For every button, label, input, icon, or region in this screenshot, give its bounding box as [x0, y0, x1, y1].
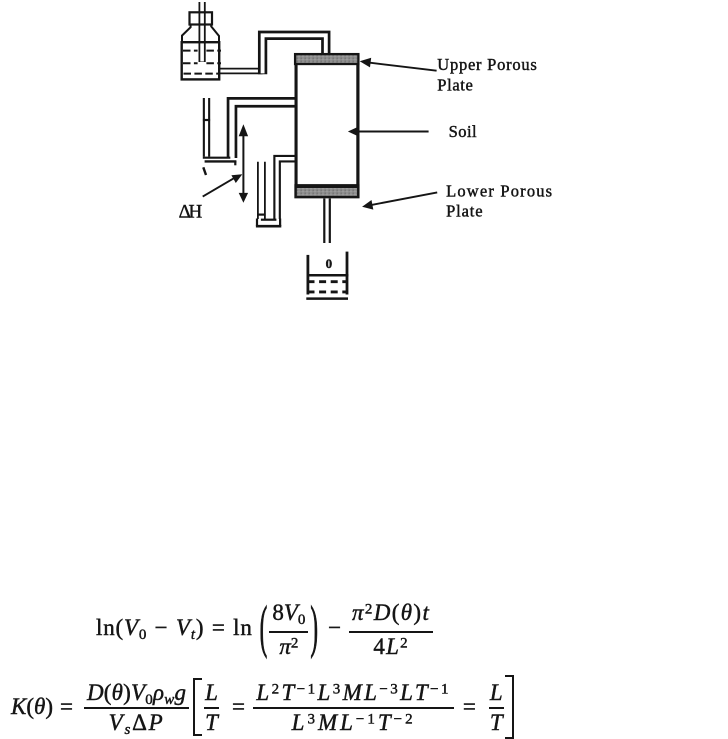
arrow line to lower plate label — [372, 192, 438, 205]
mark tick below upper manometer — [203, 167, 206, 175]
lower manometer water level — [257, 214, 265, 216]
upper manometer water level — [203, 119, 210, 121]
bottle body — [182, 42, 220, 79]
svg-text:Plate: Plate — [446, 202, 483, 221]
beaker dashed row 2 — [308, 290, 349, 293]
svg-text:Upper Porous: Upper Porous — [437, 55, 537, 74]
lower porous plate — [296, 185, 359, 197]
upper manometer bottom joins — [203, 157, 231, 159]
column right wall — [356, 54, 359, 198]
arrow line from delta-H label — [203, 178, 235, 197]
svg-text:Soil: Soil — [449, 122, 477, 141]
arrowhead soil — [348, 126, 359, 136]
column left wall — [294, 54, 297, 198]
wire: upper manometer connector tube to column — [232, 102, 297, 158]
bottle shoulder left — [182, 25, 191, 43]
beaker dashed row 1 — [308, 280, 349, 283]
beaker base line — [306, 297, 348, 300]
bottle water dashes row 3 — [184, 73, 219, 75]
delta-H double arrow shaft — [242, 134, 244, 196]
arrowhead double arrow bottom — [239, 193, 248, 203]
bottle water dashes row 1 — [183, 50, 221, 52]
svg-text:Plate: Plate — [437, 76, 473, 95]
arrow line soil label — [359, 131, 429, 133]
bottle air inlet tube — [199, 2, 206, 62]
arrow line to upper plate label — [369, 63, 437, 71]
arrowhead delta-H pointer — [231, 174, 242, 183]
upper manometer open tube — [203, 98, 210, 157]
equation 1 — [96, 600, 433, 655]
arrowhead lower plate — [362, 200, 373, 210]
upper porous plate — [295, 54, 358, 64]
bottle water dashes row 2 — [183, 62, 221, 64]
bottle cap — [190, 12, 213, 24]
arrowhead upper plate — [360, 58, 372, 68]
lower manometer U bottom — [256, 225, 281, 228]
outlet tube below column — [324, 199, 330, 244]
equation 2 — [11, 677, 514, 737]
beaker left wall — [306, 255, 309, 295]
beaker right wall — [346, 252, 349, 295]
wire: lower manometer connector tube to column — [277, 159, 297, 219]
bottle shoulder right — [211, 25, 219, 43]
svg-text:ΔH: ΔH — [179, 202, 203, 223]
lower manometer open tube — [257, 162, 266, 219]
svg-text:Lower Porous: Lower Porous — [446, 182, 552, 201]
wire: riser tube up over to column top — [263, 35, 326, 74]
lower porous plate thick top edge — [295, 184, 360, 188]
beaker water surface line — [307, 274, 349, 277]
svg-text:0: 0 — [326, 256, 333, 271]
arrowhead double arrow top — [239, 124, 248, 136]
wire: bottle outlet tube to riser — [219, 68, 263, 74]
